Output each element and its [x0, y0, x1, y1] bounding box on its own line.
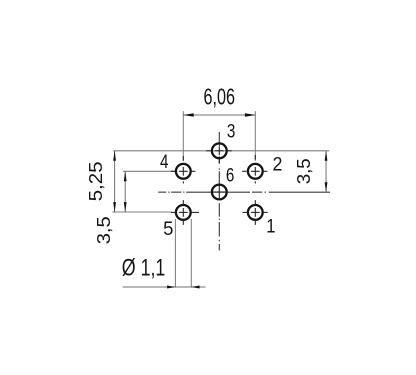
dimension line 3,5 (left inner) with arrows	[124, 171, 126, 212]
extension line 6,06 left	[182, 111, 184, 161]
centerline horizontal through pin 6	[158, 191, 330, 193]
svg-text:1: 1	[266, 215, 275, 237]
svg-text:Ø 1,1: Ø 1,1	[122, 254, 166, 281]
dimension line diameter 1,1 with arrows	[123, 286, 206, 288]
pin 4 crosshair	[171, 156, 196, 184]
svg-text:3: 3	[227, 119, 235, 141]
extension line pin4 row left	[123, 170, 175, 172]
extension line diameter 1,1 right	[190, 219, 192, 288]
svg-text:6,06: 6,06	[204, 83, 236, 109]
svg-text:2: 2	[273, 153, 283, 175]
svg-text:3,5: 3,5	[293, 158, 314, 184]
dimension line 6,06 with arrows	[183, 114, 255, 116]
svg-text:5,25: 5,25	[85, 161, 106, 201]
pin 1 crosshair	[243, 200, 268, 225]
pin 3 circle	[212, 143, 227, 158]
pin 2 crosshair	[242, 155, 267, 184]
pin 6 crosshair	[213, 186, 225, 198]
dimension line 5,25 (left outer) with arrows	[114, 151, 116, 212]
extension line pin3 row	[113, 150, 329, 152]
extension line 6,06 right	[254, 111, 256, 161]
extension line pin5 row left	[112, 211, 171, 213]
pin 3 crosshair	[206, 146, 232, 163]
svg-text:5: 5	[163, 218, 173, 240]
dimension line 3,5 (right) with arrows	[325, 151, 327, 192]
svg-text:3,5: 3,5	[93, 216, 114, 244]
svg-text:6: 6	[226, 164, 234, 186]
centerline vertical through pins 3 and 6	[218, 132, 220, 251]
pin 5 crosshair	[171, 200, 199, 225]
pin 1 circle	[248, 205, 263, 220]
pin 5 circle	[176, 205, 191, 220]
extension line diameter 1,1 left	[174, 219, 176, 288]
pin 4 circle	[176, 164, 191, 179]
svg-text:4: 4	[160, 150, 169, 172]
pin 2 circle	[248, 164, 263, 179]
pin 6 circle	[212, 185, 227, 200]
